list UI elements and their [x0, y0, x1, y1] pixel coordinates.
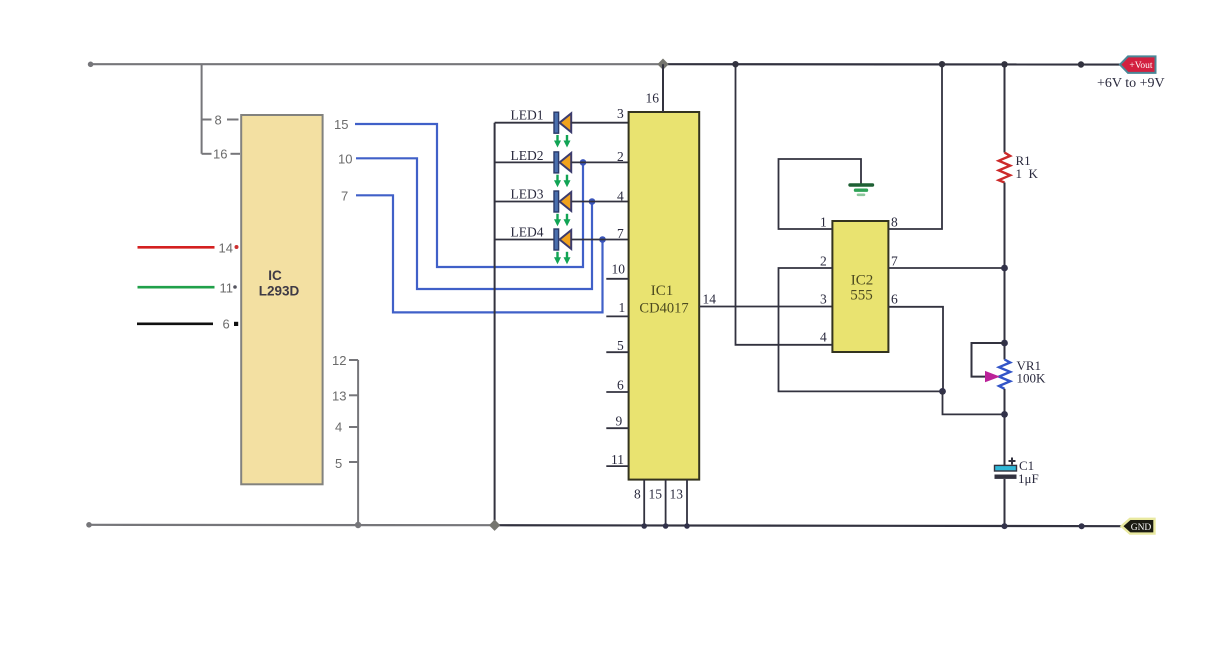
- IC2 555 body: [832, 221, 888, 352]
- wire : tick IC1 pin 11: [606, 465, 628, 467]
- node : R1/pin7 junction: [1001, 265, 1008, 272]
- GND tag: [1122, 519, 1155, 534]
- LED4 cathode bar: [554, 229, 559, 250]
- wire : LED3 anode wire to IC1 pin 4: [571, 201, 628, 203]
- svg-text:3: 3: [820, 292, 827, 307]
- LED4 triangle: [560, 230, 572, 249]
- svg-text:+6V to +9V: +6V to +9V: [1097, 76, 1165, 91]
- node : red pin-14 dot: [235, 245, 239, 249]
- svg-text:IC1: IC1: [651, 283, 674, 299]
- wire : LED1 anode wire to IC1 pin 3: [571, 122, 628, 124]
- wire : IC1 pin 8 to ground rail: [643, 480, 645, 526]
- wire : tick IC1 pin 9: [606, 427, 628, 429]
- node : top rail junction x=734.5: [732, 61, 738, 67]
- LED3 triangle: [560, 192, 572, 211]
- LED3 emission arrows: [554, 214, 571, 227]
- wire : pins 2-6 node to VR1 bottom: [943, 391, 1005, 414]
- svg-text:6: 6: [891, 292, 898, 307]
- svg-text:GND: GND: [1131, 523, 1152, 533]
- LED1 cathode bar: [554, 112, 559, 133]
- wire : blue wire L293D pin15 to LED2 node: [355, 124, 583, 267]
- svg-text:8: 8: [891, 215, 898, 230]
- svg-text:11: 11: [220, 281, 234, 296]
- svg-text:16: 16: [213, 147, 227, 162]
- node : L293D bus junction on rail: [355, 522, 361, 528]
- wire : red motor lead to pin 14: [138, 246, 215, 249]
- svg-text:1: 1: [619, 300, 626, 315]
- svg-text:LED3: LED3: [511, 187, 544, 202]
- capacitor C1 bottom plate: [995, 475, 1017, 479]
- wire : dash from label 16 to L293D body: [231, 153, 241, 155]
- svg-text:1 K: 1 K: [1016, 166, 1039, 181]
- svg-text:IC2: IC2: [851, 272, 874, 288]
- node : left end dot of top rail: [88, 62, 94, 68]
- node : blue junction on LED3 wire: [589, 198, 596, 205]
- node : top rail junction x=1081: [1078, 61, 1084, 67]
- wire : LED4 cathode wire: [495, 239, 554, 241]
- svg-text:8: 8: [215, 113, 222, 128]
- LED1 triangle: [560, 113, 572, 132]
- wire : IC2 pin 2 loop down: [779, 268, 943, 391]
- wire : black motor lead to pin 6: [137, 322, 213, 325]
- LED4 emission arrows: [554, 252, 571, 264]
- wire : tick pin 13: [349, 394, 358, 396]
- wire : LED4 anode wire to IC1 pin 7: [571, 239, 628, 241]
- svg-text:100K: 100K: [1017, 371, 1047, 386]
- wire : tick IC1 pin 5: [606, 351, 628, 353]
- svg-text:10: 10: [612, 262, 626, 277]
- node : top rail junction x=1004.5: [1001, 61, 1007, 67]
- node : IC1 pin15 junction on rail: [663, 523, 669, 529]
- potentiometer VR1 zigzag: [999, 360, 1010, 389]
- svg-text:13: 13: [670, 487, 684, 502]
- IC1 CD4017 body: [629, 112, 700, 480]
- LED3 group: [495, 187, 629, 227]
- svg-text:LED1: LED1: [511, 108, 544, 123]
- svg-text:555: 555: [850, 288, 873, 304]
- wire : drop from top rail to L293D supply pins bracket: [201, 64, 203, 154]
- node : pins 2-6 junction: [939, 388, 946, 395]
- capacitor C1 plus sign: [1009, 458, 1016, 465]
- wire : IC2 pin 6 down to pins2-6 node: [888, 307, 943, 392]
- node : blue junction on LED4 wire: [599, 236, 606, 243]
- wire : top supply rail right (dark): [663, 63, 1120, 66]
- LED3 cathode bar: [554, 191, 559, 212]
- wire : tick to pin 8 of L293D: [202, 119, 212, 121]
- VR1 wiper arrow: [985, 371, 1000, 382]
- svg-text:1μF: 1μF: [1018, 471, 1039, 486]
- node : pin-6 square dot: [234, 322, 238, 326]
- wire : tick pin 4: [349, 426, 358, 428]
- +Vout tag: [1120, 56, 1156, 73]
- svg-text:L293D: L293D: [259, 284, 300, 299]
- svg-text:14: 14: [219, 241, 233, 256]
- wire : tick IC1 pin 1: [606, 315, 628, 317]
- svg-text:9: 9: [616, 414, 623, 429]
- wire : LED2 cathode wire: [495, 161, 554, 163]
- node : IC1 pin8 junction on rail: [641, 523, 647, 529]
- LED1 group: [495, 106, 629, 148]
- node : VR1 top junction: [1001, 340, 1008, 347]
- svg-text:12: 12: [332, 353, 346, 368]
- svg-text:5: 5: [617, 338, 624, 353]
- svg-text:7: 7: [891, 253, 898, 268]
- ground symbol: [850, 185, 873, 195]
- svg-text:CD4017: CD4017: [639, 301, 688, 317]
- wire : VR1 to C1: [1004, 389, 1006, 465]
- svg-text:13: 13: [332, 389, 346, 404]
- wire : LED2 anode wire to IC1 pin 2: [571, 161, 628, 163]
- LED2 cathode bar: [554, 152, 559, 173]
- wire : IC1 pin 15 to ground rail: [665, 480, 667, 526]
- wire : tick pin 5: [349, 461, 358, 463]
- svg-text:3: 3: [617, 106, 624, 121]
- wire : blue wire L293D pin10 to LED3 node: [356, 158, 592, 289]
- svg-text:+Vout: +Vout: [1129, 61, 1152, 71]
- wire : bottom ground rail right (dark): [495, 525, 1122, 526]
- svg-text:2: 2: [820, 253, 827, 268]
- svg-text:7: 7: [617, 226, 624, 241]
- LED2 emission arrows: [554, 175, 571, 188]
- svg-text:4: 4: [820, 330, 827, 345]
- LED2 group: [495, 148, 629, 187]
- svg-text:2: 2: [617, 149, 624, 164]
- node : VR1 bottom junction: [1001, 411, 1008, 418]
- wire : dash from label 8 to L293D body: [227, 119, 239, 121]
- svg-text:5: 5: [335, 456, 342, 471]
- svg-text:IC: IC: [268, 268, 282, 283]
- wire : L293D ground bus down to bottom rail: [357, 360, 359, 525]
- capacitor C1 top plate: [995, 465, 1017, 471]
- wire : LED3 cathode wire: [495, 201, 554, 203]
- svg-text:LED4: LED4: [511, 224, 544, 239]
- node : pin-11 dot: [233, 285, 237, 289]
- resistor R1: [999, 153, 1011, 183]
- wire : green motor lead to pin 11: [138, 286, 215, 289]
- wire : bottom ground rail left (gray): [87, 524, 495, 527]
- node : rail dot near GND tag: [1079, 523, 1085, 529]
- wire : IC2 pin 8 to top rail: [888, 64, 942, 229]
- node : top rail junction at IC1 pin16: [657, 59, 668, 70]
- svg-text:10: 10: [338, 152, 352, 167]
- wire : LED1 cathode wire: [495, 122, 554, 124]
- wire : blue wire L293D pin7 to LED4 node: [356, 195, 603, 312]
- wire : VR1 wiper loop: [972, 343, 1005, 377]
- wire : LED common cathode bus: [494, 123, 496, 526]
- LED1 emission arrows: [554, 135, 571, 148]
- svg-text:15: 15: [334, 117, 348, 132]
- wire : tick pin 12: [349, 359, 358, 361]
- wire : top supply rail left (gray): [89, 63, 664, 65]
- wire : IC2 pin 1 loop to ground symbol: [779, 159, 862, 229]
- node : C1 junction on rail: [1002, 523, 1008, 529]
- svg-text:6: 6: [223, 317, 230, 332]
- svg-text:16: 16: [646, 91, 660, 106]
- IC L293D body: [241, 115, 322, 484]
- node : blue junction on LED2 wire: [580, 159, 587, 166]
- wire : tick IC1 pin 6: [606, 391, 628, 393]
- LED2 triangle: [560, 153, 572, 172]
- wire : C1 to ground rail: [1004, 479, 1006, 526]
- svg-text:4: 4: [617, 188, 624, 203]
- wire : top rail down to R1: [1004, 64, 1006, 152]
- svg-text:1: 1: [820, 215, 827, 230]
- svg-text:14: 14: [703, 292, 717, 307]
- wire : IC1 pin 16 to top rail: [662, 64, 664, 112]
- wire : IC2 pin 4 to top rail: [736, 64, 833, 345]
- wire : IC1 pin 14 to IC2 pin 3: [699, 306, 832, 308]
- node : top rail junction x=942: [939, 61, 945, 67]
- node : IC1 pin13 junction on rail: [684, 523, 690, 529]
- svg-text:4: 4: [335, 420, 342, 435]
- wire : tick IC1 pin 10: [606, 278, 628, 280]
- wire : R1 to VR1: [1004, 183, 1006, 360]
- wire : IC1 pin 13 to ground rail: [686, 480, 688, 526]
- svg-text:7: 7: [341, 189, 348, 204]
- svg-text:6: 6: [617, 378, 624, 393]
- svg-text:8: 8: [634, 487, 641, 502]
- LED4 group: [495, 224, 629, 264]
- svg-text:LED2: LED2: [511, 148, 544, 163]
- wire : IC2 pin 7 to R1/VR1 junction: [888, 267, 1004, 269]
- wire : tick to pin 16 of L293D: [202, 153, 212, 155]
- node : left end dot of ground rail: [86, 522, 92, 528]
- node : LED bus junction on rail: [489, 520, 500, 531]
- svg-text:15: 15: [649, 487, 663, 502]
- svg-text:11: 11: [611, 452, 624, 467]
